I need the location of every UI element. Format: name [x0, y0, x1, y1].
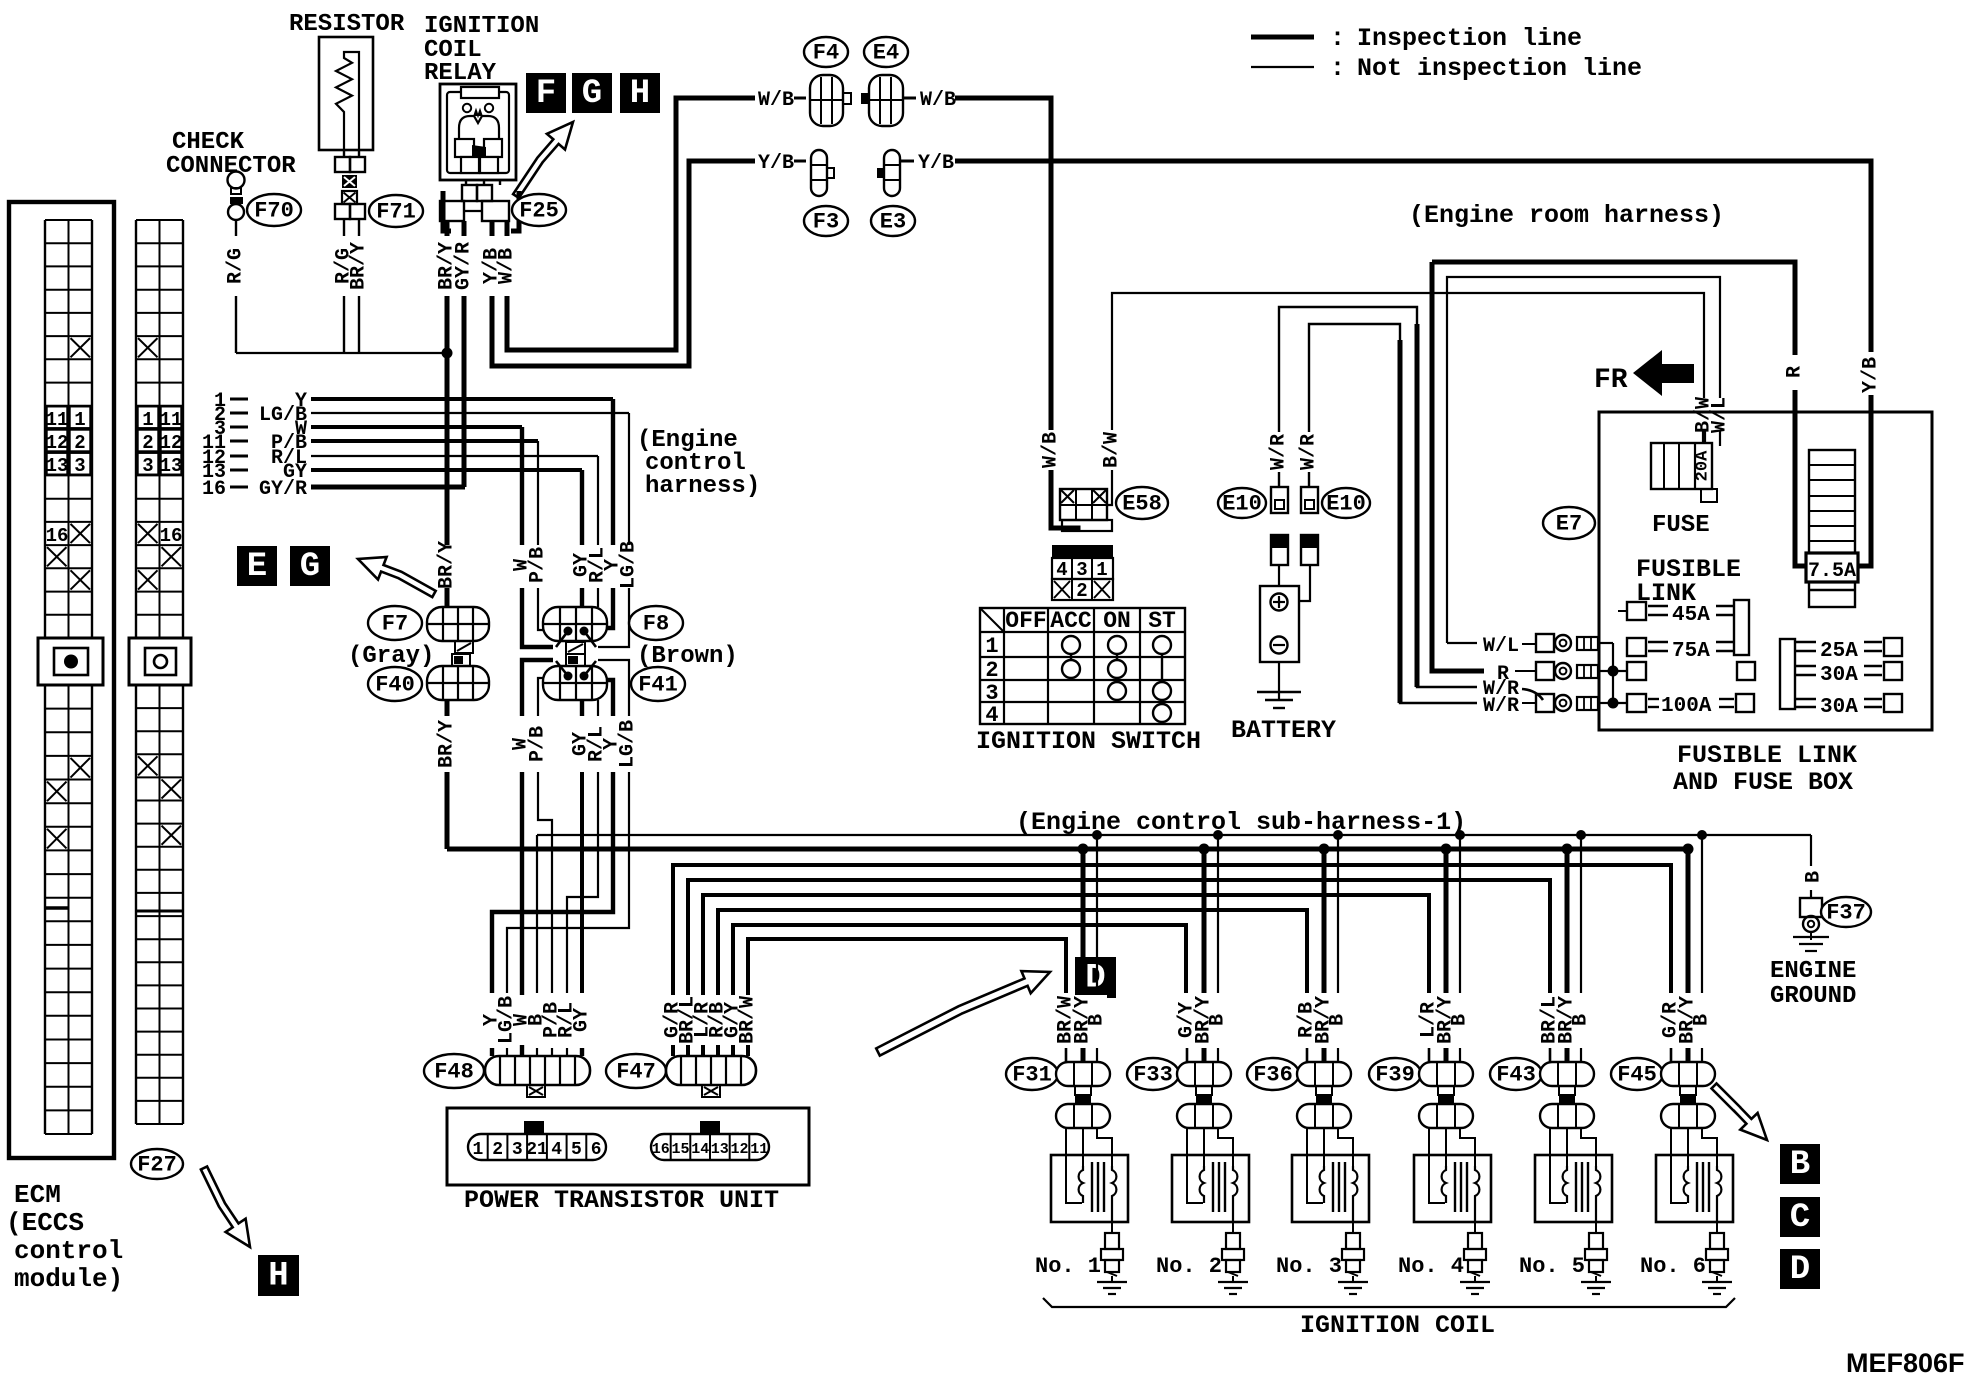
svg-text:14: 14	[691, 1141, 709, 1158]
svg-text:harness): harness)	[645, 473, 760, 500]
coil 5 internal wiring	[1550, 1128, 1566, 1203]
connector F40 body	[427, 666, 489, 700]
arrow from F47 to D	[876, 971, 1050, 1056]
wire LG/B below F41	[598, 660, 629, 716]
connector F39 label	[1369, 1058, 1421, 1090]
power transistor connector 1-6	[468, 1134, 606, 1160]
wire B/W from E58	[1107, 470, 1112, 505]
power transistor connector 16-11	[651, 1134, 769, 1160]
svg-text:F71: F71	[376, 200, 416, 225]
battery terminal left	[1271, 535, 1288, 565]
connector F27 label	[131, 1149, 183, 1179]
F27 strip cell X with 16	[138, 524, 158, 543]
wire W/B right of E4	[903, 97, 916, 100]
connector E7 label	[1543, 507, 1595, 539]
svg-text:E4: E4	[873, 41, 899, 66]
svg-text:B: B	[1803, 871, 1826, 883]
F27 connector strip grid (right)	[135, 220, 137, 638]
ground terminal F37	[1800, 898, 1822, 917]
wire W/B elbow into E58	[1051, 470, 1078, 531]
wire Y into F8 right end	[607, 588, 613, 628]
open X terminal	[342, 191, 357, 204]
connector F7 label	[368, 606, 422, 640]
connector F7 tab	[455, 641, 473, 653]
svg-text:4: 4	[551, 1140, 562, 1160]
wire B from ground bus to F48 pin4	[536, 835, 538, 993]
svg-text:E: E	[247, 548, 267, 586]
svg-text:1: 1	[142, 409, 153, 431]
coil 1 internal wiring	[1066, 1128, 1082, 1203]
fusible link 30A lower	[1795, 698, 1816, 700]
connector F31 label	[1006, 1058, 1058, 1090]
svg-text:MEF806F: MEF806F	[1846, 1348, 1964, 1376]
svg-text:3: 3	[142, 455, 153, 477]
svg-text:F8: F8	[643, 612, 669, 637]
spark plug No.2	[1232, 1222, 1234, 1233]
wire G/Y from F47 to coil	[733, 925, 1186, 1056]
wire G/Y stub	[1186, 1048, 1189, 1062]
svg-text:12: 12	[160, 432, 183, 454]
svg-text:F70: F70	[254, 199, 294, 224]
fusible link 45A	[1618, 610, 1627, 612]
wire P/B below F41	[538, 678, 543, 716]
svg-text:12: 12	[730, 1141, 748, 1158]
connector F37 label	[1821, 897, 1871, 927]
ignition key connector (black bar)	[1052, 545, 1113, 558]
svg-text:2: 2	[74, 432, 85, 454]
spark plug No.5	[1595, 1222, 1597, 1233]
F27 strip X marks upper	[138, 338, 158, 357]
wire W/L to fuse box top	[1447, 277, 1720, 643]
wire BR/L from F47 to coil	[688, 880, 1550, 1056]
svg-text:13: 13	[160, 455, 183, 477]
coil 4 transformer windings	[1442, 1166, 1446, 1203]
svg-text:Y/B: Y/B	[758, 152, 794, 175]
black X terminal	[342, 175, 357, 188]
check connector bulb symbol	[228, 172, 245, 189]
svg-text:W/R: W/R	[1268, 434, 1291, 470]
ECM strip left X marks lower	[71, 758, 91, 778]
svg-text:F3: F3	[813, 210, 839, 235]
relay coil body	[459, 116, 499, 150]
wire R/B from F47 to coil	[718, 910, 1307, 1056]
spark plug No.3	[1352, 1222, 1354, 1233]
wire B drop to F43	[1580, 835, 1582, 993]
fusible link right bar	[1780, 639, 1795, 709]
connector F25 body	[462, 185, 477, 201]
svg-text:B: B	[1449, 1014, 1472, 1026]
connector pair below (F71 lower)	[335, 204, 350, 219]
wire GY down to F48 pin7	[580, 772, 584, 993]
svg-text:E3: E3	[880, 210, 906, 235]
coil 5 mating connector	[1559, 1095, 1575, 1104]
wire B drop to F36	[1337, 835, 1339, 993]
relay pin stubs	[465, 180, 467, 185]
wire R/B stub	[1306, 1048, 1309, 1062]
svg-text:POWER TRANSISTOR UNIT: POWER TRANSISTOR UNIT	[464, 1186, 779, 1215]
wire R/G from check connector	[235, 220, 237, 236]
coil 4 internal wiring	[1429, 1128, 1445, 1203]
svg-text:E10: E10	[1222, 492, 1262, 517]
connector F48 body	[485, 1056, 590, 1085]
svg-text:BR/Y: BR/Y	[436, 541, 459, 589]
view label H (bottom)	[258, 1255, 299, 1296]
svg-text:1: 1	[472, 1140, 483, 1160]
legend not-inspection line sample (thin)	[1251, 66, 1314, 68]
F27 strip middle service connector (open circle)	[129, 638, 191, 685]
fuse 7.5A label box	[1806, 553, 1858, 582]
svg-text:Y/B: Y/B	[1860, 357, 1883, 393]
connector F41 tab	[566, 654, 585, 666]
svg-text:Y/B: Y/B	[918, 152, 954, 175]
E10 terminal right	[1301, 487, 1318, 513]
svg-text:G: G	[582, 75, 602, 113]
fusible link 75A	[1627, 638, 1646, 656]
svg-text:OFF: OFF	[1005, 608, 1046, 634]
wire 2 LG/B turn down	[628, 413, 630, 545]
svg-text:7.5A: 7.5A	[1808, 560, 1856, 583]
connector F41 body	[543, 666, 607, 700]
fusible link and fuse box outline	[1599, 412, 1932, 730]
ignition coil No.4 box	[1414, 1155, 1491, 1222]
coil 1 mating connector	[1075, 1095, 1091, 1104]
svg-text:W/L: W/L	[1709, 397, 1732, 433]
connector F40 label	[368, 667, 422, 701]
wire labels above F47	[664, 995, 758, 1045]
svg-text:E7: E7	[1556, 512, 1582, 537]
wire BR/Y from F25 down	[445, 296, 450, 545]
svg-text::: :	[1330, 24, 1345, 53]
connector F70 label	[247, 194, 301, 226]
connector F33 label	[1127, 1058, 1179, 1090]
wire BR/L stub	[1549, 1048, 1552, 1062]
wire BR/W stub	[1065, 1048, 1068, 1062]
svg-text:B/W: B/W	[1101, 432, 1124, 468]
connector F8 tab	[566, 642, 585, 654]
svg-text:F31: F31	[1012, 1063, 1052, 1088]
terminal W/L (square ring stripes)	[1536, 634, 1554, 652]
view labels B C D	[1780, 1144, 1820, 1184]
svg-text:16: 16	[160, 525, 183, 547]
svg-text:AND FUSE BOX: AND FUSE BOX	[1673, 768, 1853, 797]
svg-text:LG/B: LG/B	[618, 541, 641, 589]
wire BR/Y drop to F33	[1202, 849, 1207, 993]
svg-text:module): module)	[14, 1264, 123, 1294]
connector F47 label	[606, 1054, 666, 1088]
fusible link spare terminals	[1627, 662, 1646, 680]
coil 1 transformer windings	[1079, 1166, 1083, 1203]
svg-text:RESISTOR: RESISTOR	[289, 11, 405, 38]
svg-text:IGNITION SWITCH: IGNITION SWITCH	[976, 727, 1201, 756]
fuse 20A	[1651, 443, 1712, 489]
svg-text:E10: E10	[1326, 492, 1366, 517]
terminal W/R	[1536, 694, 1554, 712]
wire BR/Y bus (engine control sub-harness)	[447, 847, 1688, 852]
connector F40 tab	[452, 654, 470, 666]
svg-text:W/B: W/B	[1040, 432, 1063, 468]
wire W below F41	[522, 660, 553, 716]
svg-text:IGNITION COIL: IGNITION COIL	[1300, 1311, 1495, 1340]
svg-text:B: B	[1207, 1014, 1230, 1026]
wire G/R from F47 to coil	[673, 865, 1671, 1056]
svg-text:16: 16	[46, 525, 69, 547]
svg-text:H: H	[630, 75, 650, 113]
svg-text:W/L: W/L	[1483, 635, 1519, 658]
svg-text:FUSIBLE LINK: FUSIBLE LINK	[1677, 741, 1857, 770]
junction dot on BR/Y wire	[442, 348, 453, 359]
ignition key connector cells X 2 X	[1052, 579, 1113, 600]
connector F45 body	[1661, 1062, 1715, 1086]
connector E10 label right	[1322, 488, 1370, 518]
power transistor connector tab 2 (black)	[700, 1121, 720, 1134]
svg-text:75A: 75A	[1672, 640, 1710, 663]
relay contact squares lower	[461, 157, 479, 173]
ignition coil No.1 box	[1051, 1155, 1128, 1222]
wire R loop to fuse box	[1432, 262, 1484, 671]
wire GY into F8 top	[580, 588, 584, 607]
spark plug ground No.5	[1595, 1276, 1597, 1282]
connector F7 body	[427, 607, 489, 641]
wire BR/Y below F40	[445, 700, 450, 716]
connector F25 side brackets	[443, 191, 451, 231]
wire B/W up and over to fuse box	[1112, 293, 1704, 430]
svg-text:(Engine control sub-harness-1): (Engine control sub-harness-1)	[1016, 808, 1466, 837]
svg-text:No. 3: No. 3	[1276, 1254, 1342, 1279]
wire labels at F31	[1057, 995, 1107, 1045]
svg-text:5: 5	[571, 1140, 582, 1160]
svg-text:(Brown): (Brown)	[637, 643, 738, 670]
wire 3 W turn down	[520, 427, 524, 545]
ignition switch table	[980, 608, 1185, 724]
connector F33 body	[1177, 1062, 1231, 1086]
wire 1 Y turn down	[611, 399, 615, 545]
wire P/B into F8 left end	[538, 588, 543, 630]
svg-text:4: 4	[1056, 559, 1067, 581]
relay coil terminals (circles)	[463, 104, 471, 112]
fusible link 100A	[1627, 694, 1646, 712]
svg-text:D: D	[1790, 1251, 1810, 1289]
wire P/B jog to F48 pin5	[538, 772, 552, 993]
view labels E G	[237, 546, 277, 586]
F27 strip numbered cells 1/11 2/12 3/13	[138, 406, 159, 428]
connector F43 label	[1490, 1058, 1542, 1090]
power transistor connector tab (black)	[524, 1121, 544, 1134]
spark plug ground No.2	[1232, 1276, 1234, 1282]
svg-text:GROUND: GROUND	[1770, 983, 1856, 1010]
arrow from F25 to F G H	[513, 122, 573, 198]
wire B drop to F45	[1701, 835, 1703, 993]
wire W around F8 left	[522, 588, 553, 647]
wire labels at F45	[1662, 995, 1712, 1045]
svg-text:4: 4	[985, 703, 998, 728]
wire LG/B jog to F48 pin2	[507, 772, 629, 993]
svg-text:13: 13	[711, 1141, 729, 1158]
svg-text:LG/B: LG/B	[617, 720, 640, 768]
ECM connector strip grid (left)	[44, 220, 46, 638]
svg-text:BR/W: BR/W	[737, 996, 760, 1044]
connector E58 body	[1060, 489, 1107, 520]
svg-text:FUSE: FUSE	[1652, 512, 1710, 539]
svg-text:FR: FR	[1594, 365, 1628, 396]
connector F8 label	[629, 606, 683, 640]
svg-text:F41: F41	[638, 673, 678, 698]
svg-text:CHECK: CHECK	[172, 129, 245, 156]
svg-text:16: 16	[202, 478, 226, 501]
legend inspection line sample (thick)	[1251, 35, 1314, 40]
svg-text:E58: E58	[1122, 492, 1162, 517]
ECM strip left X marks mid	[47, 547, 67, 566]
connector E58 label	[1116, 487, 1168, 519]
connector E3 label	[871, 206, 915, 236]
ECM strip left: X marks upper	[71, 338, 91, 357]
fusible link 30A upper	[1795, 665, 1816, 667]
svg-text:ON: ON	[1103, 608, 1131, 634]
svg-text:F: F	[536, 75, 556, 113]
svg-text:2: 2	[1076, 580, 1087, 602]
arrow pointing to F7 wires	[358, 557, 436, 597]
svg-text:F7: F7	[382, 612, 408, 637]
ignition coil group bracket	[1043, 1298, 1735, 1307]
svg-text:(ECCS: (ECCS	[6, 1208, 84, 1238]
spark plug No.4	[1474, 1222, 1476, 1233]
svg-text:Not inspection line: Not inspection line	[1357, 54, 1642, 83]
svg-text:16: 16	[652, 1141, 670, 1158]
svg-text:G: G	[300, 548, 320, 586]
internal link wires W/L R W/R	[1598, 642, 1613, 644]
svg-text:11: 11	[750, 1141, 768, 1158]
svg-text:(Engine room harness): (Engine room harness)	[1409, 201, 1724, 230]
wire W/R right from E10 loop	[1309, 324, 1477, 703]
wire labels at F43	[1541, 995, 1591, 1045]
svg-text:F4: F4	[813, 41, 839, 66]
wire LG/B around F8 right	[598, 588, 629, 647]
svg-text:H: H	[268, 1258, 288, 1296]
terminal R	[1536, 662, 1554, 680]
wire Y jog to F48 pin1	[492, 772, 613, 993]
wire 11 P/B turn down	[537, 441, 539, 545]
F27 strip X marks mid	[162, 547, 182, 566]
E10 terminal left	[1271, 487, 1288, 513]
connector F8 pins	[564, 627, 573, 636]
wire R/L below F41	[597, 700, 599, 716]
relay inner frame	[447, 92, 509, 173]
svg-text:P/B: P/B	[527, 547, 550, 583]
connector F47 body	[666, 1056, 756, 1085]
coil 3 mating connector	[1316, 1095, 1332, 1104]
wire BR/Y into F7	[445, 588, 450, 607]
svg-text:ACC: ACC	[1050, 608, 1092, 634]
svg-text:No. 1: No. 1	[1035, 1254, 1101, 1279]
spark plug ground No.6	[1716, 1276, 1718, 1282]
ignition coil No.5 box	[1535, 1155, 1612, 1222]
wire L/R stub	[1428, 1048, 1431, 1062]
wire BR/W from F47 to coil	[748, 939, 1066, 1056]
ignition key connector cells 4 3 1	[1052, 558, 1113, 579]
connector F25 label	[512, 194, 566, 226]
connector F41 pins	[564, 672, 573, 681]
wire B to engine ground	[1810, 835, 1812, 866]
connector F43 body	[1540, 1062, 1594, 1086]
svg-text:BR/Y: BR/Y	[348, 242, 371, 290]
wire labels above F48	[484, 995, 590, 1045]
coil 2 transformer windings	[1200, 1166, 1204, 1203]
wire B drop to F39	[1459, 835, 1461, 993]
svg-text:F27: F27	[137, 1153, 177, 1178]
wire 13 GY turn down	[580, 470, 584, 545]
wire labels at F36	[1298, 995, 1348, 1045]
coil 3 internal wiring	[1307, 1128, 1323, 1203]
wire BR/Y drop to F45	[1686, 849, 1691, 993]
svg-text:BR/Y: BR/Y	[436, 720, 459, 768]
connector F47 tab	[702, 1085, 720, 1097]
coil 6 mating connector	[1680, 1095, 1696, 1104]
svg-text:2: 2	[985, 658, 998, 683]
battery terminal right	[1301, 535, 1318, 565]
coil 4 mating connector	[1438, 1095, 1454, 1104]
connector F4 body	[810, 75, 843, 126]
svg-text:F47: F47	[616, 1060, 656, 1085]
resistor element zigzag	[336, 52, 359, 150]
svg-text:W/B: W/B	[920, 89, 956, 112]
connector F48 tab	[527, 1085, 545, 1097]
wire BR/Y drop to F39	[1444, 849, 1449, 993]
label (Engine control sub-harness-1)	[1012, 808, 1416, 832]
fusible link 25A	[1795, 641, 1816, 643]
wire G/R stub	[1670, 1048, 1673, 1062]
svg-text:F25: F25	[519, 199, 559, 224]
svg-text:ECM: ECM	[14, 1180, 61, 1210]
svg-text:W/B: W/B	[758, 89, 794, 112]
wire W/B from F25 loop to F4	[507, 98, 755, 350]
svg-text:3: 3	[1076, 559, 1087, 581]
connector E4 label	[864, 37, 908, 67]
wires R/G BR/Y below F71	[343, 219, 345, 236]
svg-text:30A: 30A	[1820, 664, 1858, 687]
F25 pin stubs	[445, 221, 450, 236]
spark plug ground No.4	[1474, 1276, 1476, 1282]
svg-text:F40: F40	[375, 673, 415, 698]
svg-text:F48: F48	[434, 1060, 474, 1085]
connector E4 body	[861, 93, 869, 104]
arrow from F45 to B C D	[1712, 1084, 1768, 1141]
svg-text:R: R	[1784, 366, 1807, 378]
svg-text:1: 1	[985, 634, 998, 659]
ECM outer border	[9, 202, 114, 1158]
svg-text:No. 2: No. 2	[1156, 1254, 1222, 1279]
coil 3 transformer windings	[1320, 1166, 1324, 1203]
wire L/R from F47 to coil	[703, 895, 1429, 1056]
svg-text:15: 15	[671, 1141, 689, 1158]
svg-text:3: 3	[512, 1140, 523, 1160]
spark plug No.6	[1716, 1222, 1718, 1233]
spark plug No.1	[1111, 1222, 1113, 1233]
connector F39 body	[1419, 1062, 1473, 1086]
ignition coil No.3 box	[1292, 1155, 1369, 1222]
wire B drop to F31	[1096, 835, 1098, 993]
connector F48 label	[424, 1054, 484, 1088]
battery ground	[1278, 662, 1280, 700]
battery positive terminal	[1271, 594, 1288, 611]
svg-text:BATTERY: BATTERY	[1231, 716, 1336, 745]
relay U1 outer box	[440, 84, 516, 180]
relay top slot	[461, 87, 499, 98]
svg-text:1: 1	[1096, 559, 1107, 581]
resistor R box	[319, 37, 373, 150]
connector F36 body	[1297, 1062, 1351, 1086]
wire Y/B from E3 to fuse box	[955, 161, 1871, 352]
svg-text:F33: F33	[1133, 1063, 1173, 1088]
ECM strip left separator mark	[45, 906, 69, 910]
